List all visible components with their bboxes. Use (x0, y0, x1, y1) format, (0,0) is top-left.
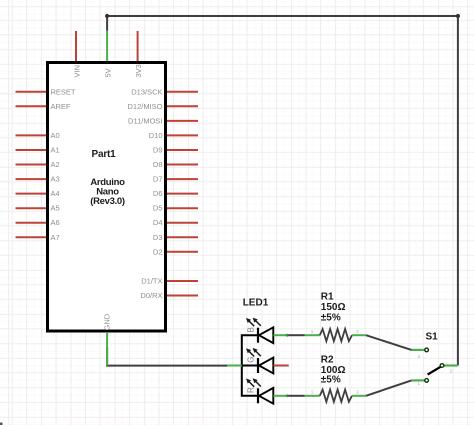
pin A7 (16, 233, 60, 242)
LED LED1 bus stub to G chip (242, 365, 258, 367)
pin D6 (153, 189, 198, 198)
pin 3V3 (top) (134, 31, 143, 78)
wire 5V net: 5V pin up and across top to right side down to S1 (107, 16, 458, 366)
pin AREF (16, 102, 71, 111)
pin D3 (153, 233, 198, 242)
pin 5V (top, connected green) (104, 31, 113, 78)
svg-text:A2: A2 (51, 160, 60, 169)
LED LED1 common pin lead (green, to GND wire) (227, 365, 242, 367)
wire GND net: GND pin down then right to LED1 common (107, 347, 227, 366)
LED LED1 chip R: emission arrows (249, 381, 261, 387)
pin A0 (16, 131, 60, 140)
pin D8 (153, 160, 198, 169)
svg-text:S1: S1 (426, 332, 439, 343)
switch S1 throw terminal pin 3 (425, 348, 429, 352)
svg-text:D0/RX: D0/RX (140, 291, 162, 300)
svg-text:3: 3 (417, 354, 420, 359)
pin RESET (16, 87, 76, 96)
svg-text:±5%: ±5% (321, 313, 341, 324)
svg-text:1: 1 (311, 329, 314, 334)
switch S1 common lead pin 2 (green) (444, 364, 458, 366)
svg-text:R: R (246, 387, 255, 393)
svg-text:A7: A7 (51, 233, 60, 242)
pin D9 (153, 146, 198, 155)
LED LED1 anode lead R (green) (273, 395, 288, 397)
svg-text:R1: R1 (321, 292, 334, 303)
svg-text:Part1: Part1 (91, 149, 116, 160)
pin A6 (16, 218, 60, 227)
svg-text:(Rev3.0): (Rev3.0) (90, 196, 125, 207)
svg-text:D10: D10 (149, 131, 163, 140)
IC Part1 Arduino Nano (Rev3.0) body (48, 63, 166, 332)
svg-text:2: 2 (356, 390, 359, 395)
svg-text:B: B (246, 327, 255, 332)
pin A2 (16, 160, 60, 169)
LED LED1 common cathode bus (242, 335, 258, 396)
stray mark bottom-left corner (0, 423, 3, 425)
pin D12/MISO (127, 102, 198, 111)
svg-text:1: 1 (311, 390, 314, 395)
svg-text:D4: D4 (153, 218, 163, 227)
LED LED1 chip B: triangle (259, 327, 273, 343)
switch S1 common terminal pin 2 (440, 364, 444, 368)
svg-text:D2: D2 (153, 247, 163, 256)
svg-text:A4: A4 (51, 189, 60, 198)
svg-text:LED1: LED1 (243, 298, 269, 309)
svg-text:D11/MOSI: D11/MOSI (128, 116, 162, 125)
wire R2.2 to S1.1 (366, 380, 412, 395)
svg-text:D9: D9 (153, 146, 163, 155)
svg-text:G: G (246, 356, 255, 362)
svg-text:150Ω: 150Ω (321, 302, 346, 313)
pin D10 (149, 131, 198, 140)
pin D2 (153, 247, 198, 256)
LED LED1 chip B: emission arrows (249, 321, 261, 327)
pin A5 (16, 204, 60, 213)
node bendpoint at top-right of 5V wire (456, 14, 460, 18)
resistor R2 lead 1 (green) (305, 395, 320, 397)
LED LED1 chip R: triangle (259, 388, 273, 404)
svg-text:±5%: ±5% (321, 375, 341, 386)
svg-text:5V: 5V (104, 68, 113, 77)
svg-text:D6: D6 (153, 189, 163, 198)
svg-text:A5: A5 (51, 204, 60, 213)
svg-text:A3: A3 (51, 175, 60, 184)
resistor R1 lead 2 (green) (352, 334, 366, 336)
svg-text:2: 2 (450, 369, 453, 374)
svg-text:VIN: VIN (73, 65, 82, 78)
svg-text:D1/TX: D1/TX (141, 277, 162, 286)
pin GND (bottom, connected green) (102, 313, 111, 365)
svg-text:AREF: AREF (51, 102, 71, 111)
pin A1 (16, 146, 60, 155)
svg-text:R2: R2 (321, 355, 334, 366)
node bendpoint at top-left of 5V wire (105, 14, 109, 18)
LED LED1 chip R: cathode bar (257, 388, 259, 403)
LED LED1 anode lead G (red, unconnected) (273, 365, 289, 367)
svg-text:A0: A0 (51, 131, 60, 140)
LED LED1 chip G: emission arrows (249, 351, 261, 357)
svg-text:D5: D5 (153, 204, 163, 213)
svg-text:A1: A1 (51, 146, 60, 155)
svg-text:D13/SCK: D13/SCK (131, 87, 162, 96)
resistor R2 zigzag body (320, 390, 352, 402)
resistor R1 zigzag body (320, 329, 352, 341)
pin D13/SCK (131, 87, 198, 96)
switch S1 throw lead pin 3 (green) (412, 349, 426, 351)
wire R1.2 to S1.3 (366, 335, 412, 350)
pin VIN (top) (73, 31, 82, 78)
pin D11/MOSI (128, 116, 198, 125)
svg-text:1: 1 (417, 381, 420, 386)
pin D5 (153, 204, 198, 213)
wire LED1.B to R1.1 (289, 334, 305, 336)
LED LED1 chip B: cathode bar (257, 328, 259, 343)
svg-text:D7: D7 (153, 175, 163, 184)
resistor R1 lead 1 (green) (305, 334, 320, 336)
svg-text:D12/MISO: D12/MISO (127, 102, 162, 111)
svg-text:A6: A6 (51, 218, 60, 227)
svg-text:3V3: 3V3 (134, 64, 143, 77)
pin A3 (16, 175, 60, 184)
LED LED1 chip G: triangle (259, 358, 273, 374)
pin D1/TX (141, 277, 198, 286)
svg-text:RESET: RESET (51, 87, 76, 96)
switch S1 throw lead pin 1 (green) (412, 379, 426, 381)
svg-text:D8: D8 (153, 160, 163, 169)
switch S1 throw terminal pin 1 (425, 379, 429, 383)
switch S1 lever (428, 366, 442, 374)
svg-text:GND: GND (102, 313, 111, 330)
pin D0/RX (140, 291, 198, 300)
pin A4 (16, 189, 60, 198)
resistor R2 lead 2 (green) (352, 395, 366, 397)
pin D4 (153, 218, 198, 227)
pin D7 (153, 175, 198, 184)
LED LED1 chip G: cathode bar (257, 358, 259, 373)
wire LED1.R to R2.1 (289, 395, 305, 397)
svg-text:2: 2 (356, 329, 359, 334)
svg-text:D3: D3 (153, 233, 163, 242)
LED LED1 anode lead B (green) (273, 334, 288, 336)
